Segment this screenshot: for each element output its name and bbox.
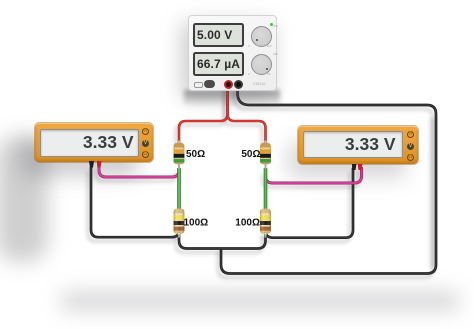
M1 button V — [142, 140, 149, 147]
multimeter M1 — [35, 123, 153, 162]
M1 display — [40, 129, 139, 157]
M1 button A — [142, 128, 149, 135]
wire: green left divider node — [178, 168, 180, 210]
wire: green right divider node — [265, 168, 267, 210]
M2 button ohm — [407, 154, 414, 161]
PS1 red terminal — [224, 80, 233, 89]
PS1 current knob — [251, 54, 272, 75]
shadow under meter M2 — [288, 142, 406, 178]
floor shadow band bottom — [60, 292, 460, 310]
multimeter M2 — [298, 126, 418, 165]
wire: magenta meter M2 V+ to right divider node — [266, 167, 362, 183]
shadow under power supply PS1 — [181, 22, 273, 98]
resistor R4 100ohm right — [260, 209, 271, 238]
PS1 brand text — [253, 82, 265, 86]
svg-text:100Ω: 100Ω — [184, 217, 209, 228]
M2 red probe — [358, 164, 363, 171]
M2 button A — [407, 131, 414, 138]
wire: black left 100ohm bottom to right 100ohm bottom — [179, 232, 266, 249]
shadow under meter M1 — [22, 140, 138, 176]
wire shadows — [88, 88, 433, 278]
M1 black probe — [89, 161, 94, 168]
M1 red probe — [97, 161, 102, 168]
M2 display — [303, 131, 403, 158]
wire: black meter M1 COM to left 100ohm bottom — [91, 167, 179, 237]
wire: magenta meter M1 V+ to left divider node — [99, 166, 179, 177]
wire: black meter M2 COM to right 100ohm bottom — [266, 168, 354, 238]
PS1 black terminal — [234, 80, 243, 89]
PS1 current display — [193, 52, 244, 76]
resistor R3 100ohm left — [174, 209, 185, 238]
svg-text:100Ω: 100Ω — [235, 217, 260, 228]
power supply PS1 — [188, 15, 277, 91]
wire: red PSU+ to left 50ohm top — [179, 84, 228, 144]
wire: red PSU+ to right 50ohm top — [228, 84, 266, 144]
floor shadow left of meter M1 — [0, 136, 48, 262]
svg-text:50Ω: 50Ω — [186, 149, 205, 160]
PS1 voltage knob — [251, 26, 272, 47]
M2 button V — [407, 143, 414, 150]
resistor R2 50ohm right — [260, 141, 271, 170]
shadow below power supply PS1 — [184, 90, 280, 107]
PS1 CV LED — [270, 23, 273, 26]
M2 black probe — [352, 164, 357, 171]
PS1 power button — [194, 82, 203, 88]
M1 button ohm — [142, 151, 149, 158]
resistor R1 50ohm left — [174, 141, 185, 170]
PS1 voltage display — [193, 23, 244, 47]
PS1 knob tick labels — [248, 44, 250, 48]
svg-text:50Ω: 50Ω — [241, 149, 260, 160]
wire: black PSU- around right side to bottom junction — [221, 84, 436, 274]
PS1 toggle — [204, 80, 215, 89]
